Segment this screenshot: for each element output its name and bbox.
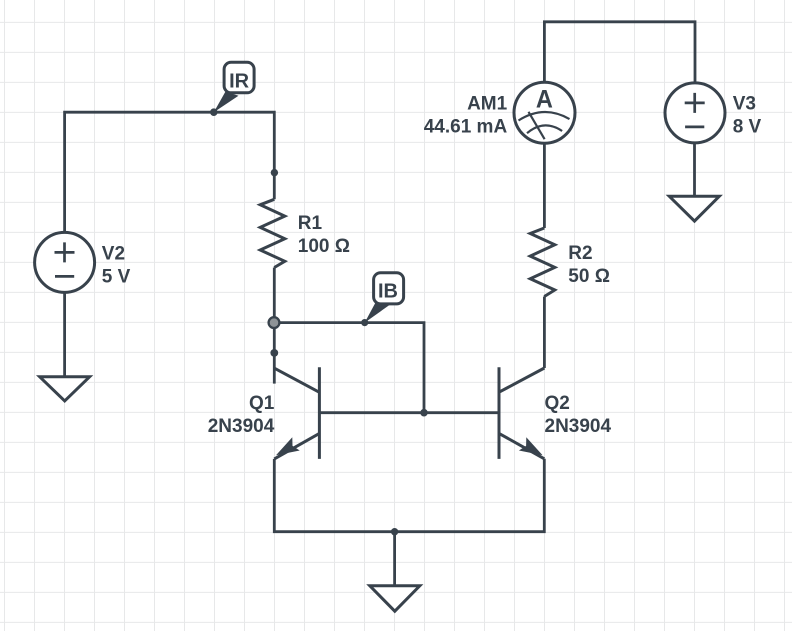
resistor R1 zigzag [260, 199, 285, 267]
svg-text:Q2: Q2 [545, 393, 570, 414]
voltage source V2 plus [55, 242, 75, 262]
ammeter AM1 needle [529, 112, 545, 139]
svg-text:5 V: 5 V [102, 267, 131, 288]
ground V3 triangle [669, 196, 719, 221]
svg-text:50 Ω: 50 Ω [568, 266, 610, 287]
svg-text:Q1: Q1 [249, 393, 275, 414]
ammeter AM1 scale arc upper [519, 112, 570, 120]
transistor Q1 base bar [318, 367, 321, 459]
node IR junction dot [210, 108, 218, 116]
wire AM1 bottom to R2 top [543, 143, 546, 228]
svg-text:A: A [536, 85, 553, 113]
resistor R2 zigzag [530, 228, 555, 297]
voltage source V2 circle [35, 232, 95, 292]
wire V2 top to IR corner [65, 112, 275, 233]
svg-text:R2: R2 [568, 243, 592, 264]
svg-text:IB: IB [378, 280, 398, 302]
voltage source V3 minus [685, 126, 704, 129]
junction dot Q1 collector [270, 349, 278, 357]
svg-text:R1: R1 [298, 213, 323, 234]
transistor Q2 base bar [498, 367, 501, 459]
wire Q1 emitter down, bottom rail, Q2 emitter up [274, 459, 544, 532]
wire R2 bottom to Q2 collector [543, 297, 546, 369]
transistor Q2 collector diagonal [499, 368, 544, 392]
svg-text:V2: V2 [102, 244, 125, 265]
wire V2 bottom to ground [63, 292, 66, 376]
wire AM1 top to V3 top [544, 22, 695, 83]
gray node at R1 bottom [269, 317, 280, 328]
voltage source V3 circle [665, 83, 725, 143]
flag IB tail [365, 302, 390, 323]
voltage source V2 minus [55, 275, 74, 278]
svg-text:2N3904: 2N3904 [545, 416, 612, 437]
junction dot bottom rail [391, 528, 398, 535]
wire gray node down to Q1 collector [273, 323, 276, 384]
ammeter AM1 circle [514, 82, 575, 143]
transistor Q2 emitter arrow [519, 437, 543, 455]
svg-text:100 Ω: 100 Ω [298, 236, 350, 257]
wire Q1 base to Q2 base [319, 411, 499, 414]
svg-text:44.61 mA: 44.61 mA [424, 116, 508, 137]
node IB dot [361, 319, 368, 326]
transistor Q1 emitter diagonal [274, 433, 319, 459]
ammeter AM1 scale arc lower [527, 125, 562, 133]
wire R1 bottom to gray node [273, 268, 276, 323]
transistor Q1 collector diagonal [275, 368, 320, 392]
junction dot base wire [420, 409, 428, 417]
flag IR box [224, 62, 254, 93]
transistor Q1 emitter arrow [276, 437, 300, 455]
svg-text:IR: IR [229, 70, 250, 92]
ground bottom triangle [370, 586, 420, 611]
voltage source V3 plus [685, 93, 705, 113]
transistor Q2 emitter diagonal [499, 433, 544, 458]
svg-text:V3: V3 [733, 94, 756, 115]
flag IB box [374, 273, 404, 304]
junction dot on R1 top wire [271, 169, 278, 176]
ground V2 triangle [40, 377, 90, 401]
svg-text:2N3904: 2N3904 [208, 416, 275, 437]
wire V3 bottom to ground [693, 143, 696, 196]
svg-text:AM1: AM1 [467, 94, 508, 115]
wire IB horizontal and corner down to base junction [274, 323, 424, 413]
flag IR tail [214, 92, 239, 113]
svg-text:8 V: 8 V [733, 116, 762, 137]
wire ground stem bottom [393, 532, 396, 586]
